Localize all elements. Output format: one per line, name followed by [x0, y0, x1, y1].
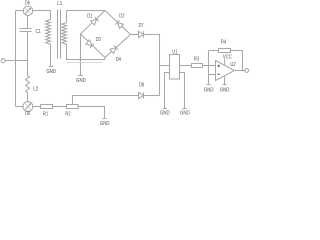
svg-text:R3: R3 [194, 56, 199, 62]
wire feedback riser and ground drop [208, 51, 210, 85]
svg-text:R4: R4 [221, 39, 226, 45]
svg-text:C1: C1 [36, 29, 41, 35]
input terminal J1 [1, 59, 5, 63]
wire left rail [15, 11, 17, 107]
transformer L1 core [58, 10, 61, 59]
inductor L2 [26, 75, 30, 92]
ground (under primary) [49, 66, 53, 68]
svg-text:GND: GND [76, 78, 86, 84]
svg-text:GND: GND [204, 87, 214, 93]
resistor R3 [192, 64, 203, 68]
diode D3 [86, 40, 94, 48]
component D6 (top circle) [23, 6, 32, 15]
wire faint bus shadow [67, 62, 103, 64]
svg-text:U1: U1 [172, 49, 177, 55]
wire op-amp V- pin to ground [224, 76, 226, 85]
wire input to C1 node [5, 60, 27, 62]
svg-text:D2: D2 [119, 13, 124, 19]
wire U1 pin3 to ground [165, 73, 170, 109]
wire bridge left corner down to ground [80, 34, 82, 76]
svg-text:D7: D7 [139, 23, 144, 29]
wire U1 left pin [160, 65, 170, 67]
svg-text:D4: D4 [116, 57, 121, 63]
ground (op-amp left) [207, 84, 211, 86]
wire bridge edge top-left [81, 11, 106, 34]
svg-text:GND: GND [100, 121, 110, 127]
diode D7 [139, 31, 144, 37]
svg-text:GND: GND [46, 69, 56, 75]
ground (bottom right of R2) [102, 118, 106, 120]
ground (under transformer) [78, 75, 83, 77]
wire R1 to R2 [53, 106, 67, 108]
op-amp U2 [216, 61, 235, 81]
wire U1 pin4 to ground [180, 73, 185, 109]
svg-text:D6: D6 [25, 0, 30, 6]
ground (U1 left) [163, 108, 167, 110]
wire R4 left to feedback riser [209, 50, 219, 52]
wire R4 right riser to output [231, 51, 243, 71]
wire R2 riser to D8 net [73, 96, 139, 105]
wire D8 to bus [144, 95, 160, 97]
svg-text:VCC: VCC [223, 55, 232, 61]
svg-text:D8: D8 [139, 82, 144, 88]
diode D1 [90, 17, 98, 25]
wire bridge bottom corner drop [104, 58, 106, 60]
capacitor C1 [20, 29, 32, 32]
wire R2 right to ground drop [78, 107, 105, 119]
wire C1 to L2 [27, 32, 29, 76]
node junction output [242, 70, 244, 72]
wire R3 to op-amp + input [203, 65, 216, 67]
diode D2 [115, 20, 123, 28]
svg-text:R1: R1 [43, 111, 48, 117]
svg-text:L1: L1 [57, 1, 62, 7]
wire U1 right pin to R3 [180, 65, 192, 67]
wire D7 to vertical bus [144, 35, 160, 96]
svg-text:R2: R2 [65, 111, 70, 117]
wire D6 left [16, 10, 24, 12]
wire bottom rail left [16, 106, 24, 108]
wire secondary top to bridge [67, 10, 106, 12]
component D6 (bottom circle) [23, 102, 33, 112]
svg-text:L2: L2 [33, 87, 38, 93]
svg-text:GND: GND [220, 87, 230, 93]
svg-text:U2: U2 [230, 62, 235, 68]
resistor R2 [67, 105, 79, 109]
svg-text:D6: D6 [25, 111, 30, 117]
node junction [79, 58, 81, 60]
wire op-amp minus input [209, 74, 216, 76]
wire L2 to bottom circle [27, 93, 29, 102]
wire bridge edge bottom-right [105, 35, 131, 58]
ground (op-amp right) [222, 84, 226, 86]
diode D4 [110, 45, 118, 53]
transformer L1 primary [46, 11, 51, 67]
svg-text:D1: D1 [87, 14, 92, 20]
wire circle to R1 [33, 106, 41, 108]
IC U1 [170, 55, 180, 80]
output terminal [245, 69, 249, 73]
svg-text:GND: GND [180, 110, 190, 116]
resistor R4 [219, 49, 231, 53]
wire op-amp output [235, 70, 245, 72]
diode D8 [139, 92, 144, 98]
svg-text:D3: D3 [96, 37, 101, 43]
transformer L1 secondary [62, 11, 105, 60]
svg-text:GND: GND [160, 110, 170, 116]
wire bridge edge top-right [105, 11, 131, 35]
resistor R1 [41, 105, 53, 109]
wire bridge right to D7 [131, 34, 139, 36]
wire bridge edge bottom-left [81, 34, 106, 58]
wire D6 bottom to C1 [27, 15, 29, 28]
wire VCC stub [224, 59, 226, 65]
ground (U1 right) [182, 108, 186, 110]
wire D6 right to transformer primary [33, 10, 51, 12]
